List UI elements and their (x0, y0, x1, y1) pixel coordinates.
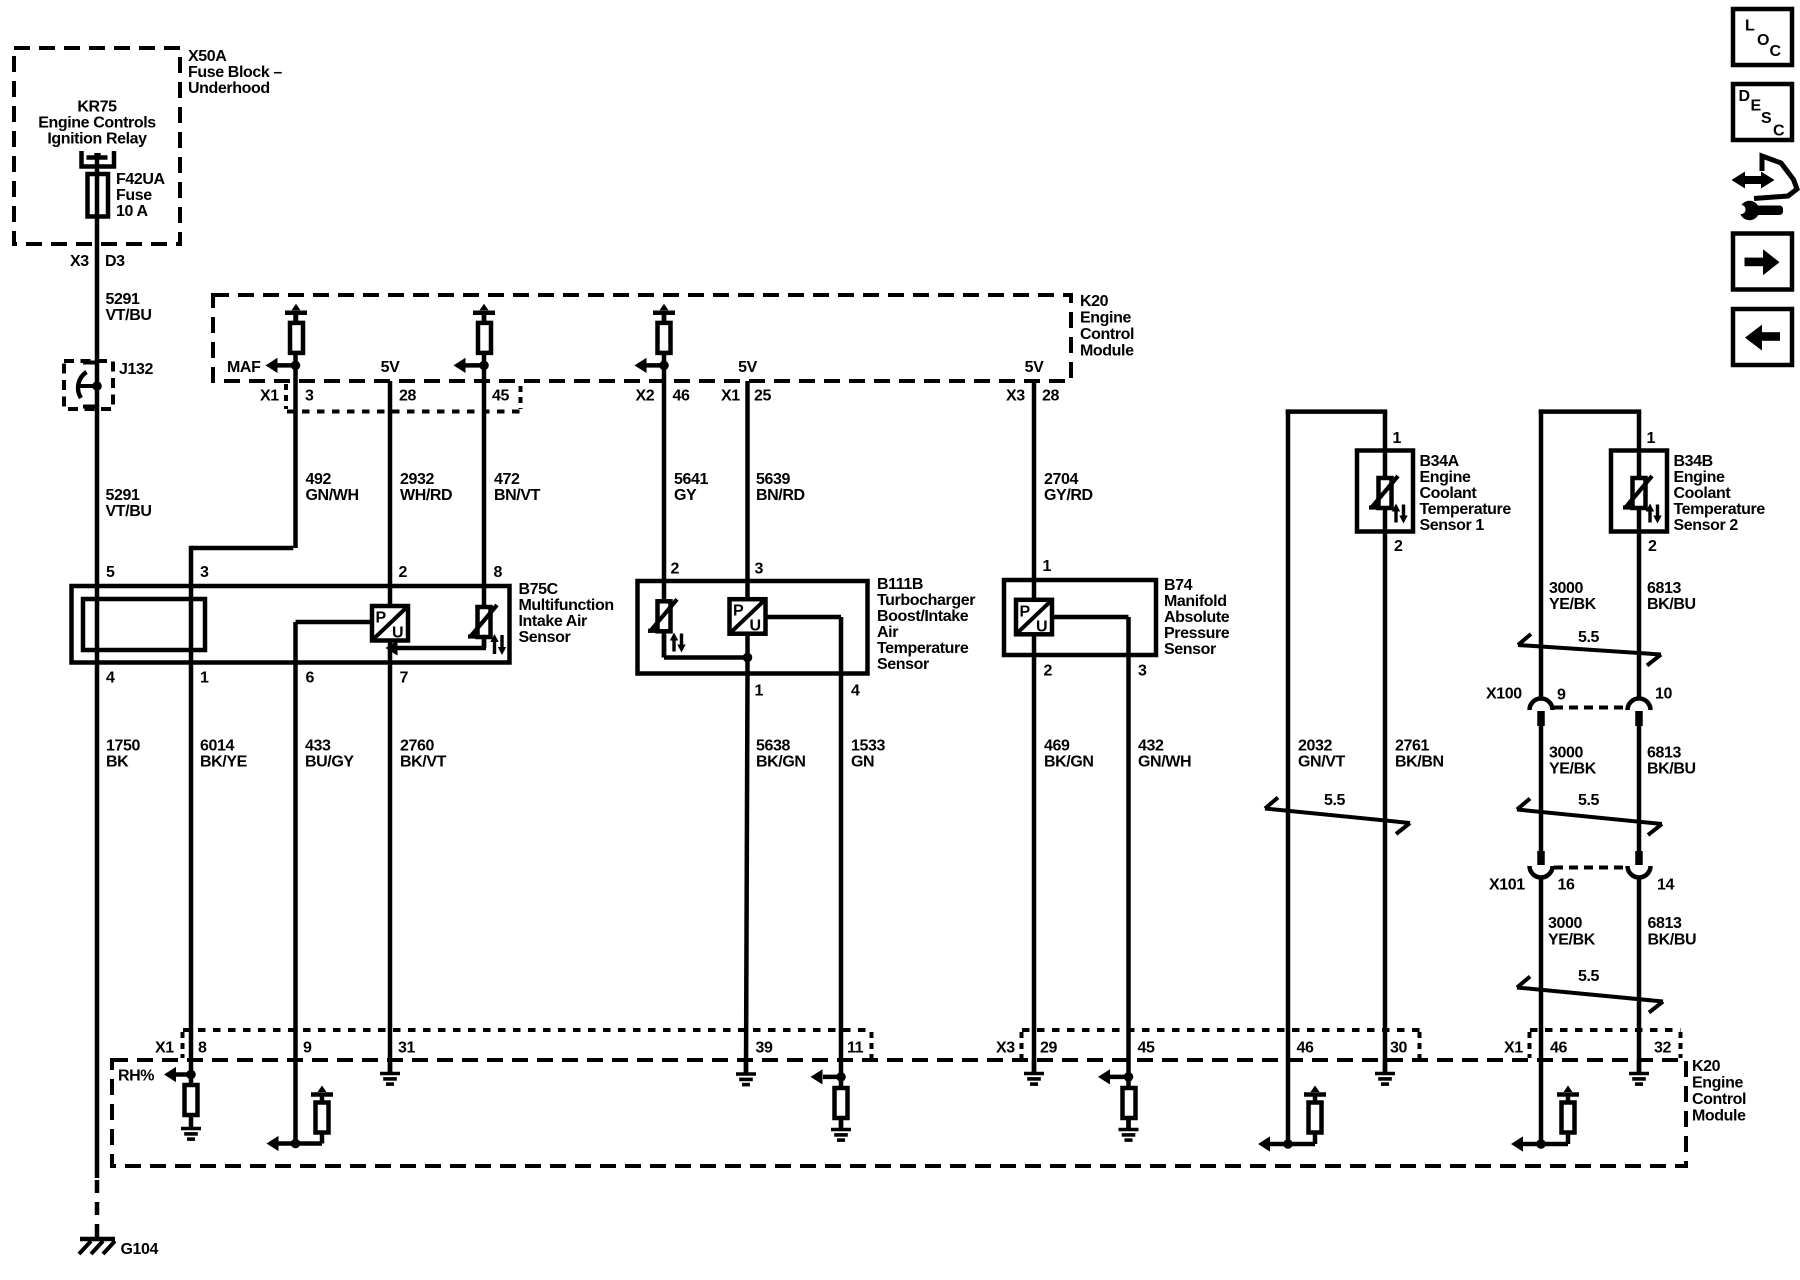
svg-text:3000: 3000 (1549, 580, 1583, 597)
svg-text:8: 8 (198, 1040, 207, 1057)
label MAF (227, 359, 261, 376)
pin label X1 top (260, 388, 279, 405)
twist 5.5 B34B middle (1517, 799, 1662, 836)
svg-text:1: 1 (200, 670, 209, 687)
svg-text:BN/RD: BN/RD (756, 487, 805, 504)
label 5.5 B34B lower (1578, 968, 1600, 985)
label 5.5 B34B middle (1578, 792, 1600, 809)
svg-text:U: U (1036, 618, 1047, 635)
label 6813 BK/BU row2 (1647, 745, 1696, 778)
svg-text:X1: X1 (721, 388, 740, 405)
wire loop above B34B (1539, 409, 1641, 450)
svg-text:10 A: 10 A (116, 203, 148, 220)
label J132 (119, 361, 153, 378)
pin 39 bottom (756, 1040, 773, 1057)
pin 46b bottom (1550, 1040, 1567, 1057)
svg-text:46: 46 (673, 388, 690, 405)
B111B thermistor leg (664, 635, 752, 663)
ground at pin 30 (1375, 1060, 1395, 1084)
ECM internal resistor at pin 46 X2 (653, 304, 675, 353)
svg-text:5.5: 5.5 (1578, 792, 1600, 809)
ground at pin 8 (181, 1129, 201, 1140)
pin 46 top (673, 388, 690, 405)
label X100 (1486, 686, 1522, 703)
svg-text:5638: 5638 (756, 738, 790, 755)
svg-text:B34B: B34B (1674, 453, 1713, 470)
svg-text:U: U (392, 625, 403, 642)
pin 10 X100 (1655, 686, 1672, 703)
svg-text:5639: 5639 (756, 471, 790, 488)
label 2760 BK/VT (400, 738, 447, 771)
svg-text:B75C: B75C (519, 581, 559, 598)
svg-text:X101: X101 (1489, 877, 1525, 894)
pin 28 top (399, 388, 416, 405)
svg-text:2: 2 (1044, 663, 1053, 680)
svg-text:2: 2 (1648, 538, 1657, 555)
svg-text:Control: Control (1692, 1091, 1746, 1108)
pin label X3 top (1006, 388, 1025, 405)
label 5V pin 28 X3 (1025, 359, 1044, 376)
B111B P/U symbol (730, 599, 766, 635)
svg-text:6: 6 (306, 670, 315, 687)
svg-text:469: 469 (1044, 738, 1070, 755)
MAF output arrow (266, 358, 301, 373)
svg-text:Temperature: Temperature (1674, 501, 1766, 518)
svg-text:X2: X2 (636, 388, 655, 405)
svg-text:P: P (733, 603, 744, 620)
svg-text:E: E (1751, 98, 1762, 115)
wire 6014 BK/YE (pin 1 to ECM pin 8) (189, 663, 194, 1086)
B74 P/U symbol (1016, 600, 1052, 636)
label B74 (1164, 577, 1230, 658)
svg-text:J132: J132 (119, 361, 153, 378)
svg-text:1: 1 (755, 683, 764, 700)
B75C internal arrow to P/U (386, 638, 487, 656)
svg-text:U: U (750, 618, 761, 635)
B111B thermistor (648, 599, 677, 631)
svg-text:2: 2 (399, 564, 408, 581)
svg-text:Multifunction: Multifunction (519, 597, 614, 614)
pin 4 B111B (851, 683, 860, 700)
svg-text:BK: BK (106, 754, 129, 771)
wire 5639 BN/RD (5V to B111B pin 3) (745, 381, 750, 674)
svg-text:BK/BU: BK/BU (1648, 932, 1697, 949)
svg-text:BU/GY: BU/GY (305, 754, 354, 771)
ECM resistor at pin 11 (835, 1088, 848, 1128)
svg-text:X3: X3 (1006, 388, 1025, 405)
svg-text:S: S (1761, 110, 1772, 127)
svg-text:GY: GY (674, 487, 697, 504)
svg-text:C: C (1770, 43, 1782, 60)
label 5V pin 25 (738, 359, 757, 376)
pin 9 X100 (1557, 687, 1566, 704)
svg-text:BK/BN: BK/BN (1395, 754, 1444, 771)
svg-text:45: 45 (492, 388, 509, 405)
svg-text:Manifold: Manifold (1164, 593, 1227, 610)
wire 3000 YE/BK middle (1539, 726, 1544, 852)
pin 1 B74 (1043, 558, 1052, 575)
wire D inside B75C/P-U (388, 606, 393, 663)
icon DESC box (1733, 84, 1792, 140)
svg-text:Engine: Engine (1692, 1075, 1743, 1092)
pin 2 B34A (1394, 538, 1403, 555)
svg-text:Sensor: Sensor (519, 629, 571, 646)
label wire 5291 upper (106, 291, 152, 324)
wire 5638 BK/GN (B111B pin 1 to ECM 39) (746, 674, 748, 1074)
label 492 GN/WH (306, 471, 359, 504)
svg-text:2761: 2761 (1395, 738, 1429, 755)
wire 472 BN/VT (to B75C pin 8) (482, 313, 487, 648)
svg-text:31: 31 (398, 1040, 415, 1057)
wire 2032 GN/VT (to ECM 46) (1286, 412, 1291, 1144)
wire 2932 WH/RD (5V) (388, 381, 393, 606)
svg-text:Air: Air (877, 624, 898, 641)
svg-text:BK/GN: BK/GN (756, 754, 806, 771)
svg-text:D: D (1739, 88, 1750, 105)
svg-text:11: 11 (847, 1040, 864, 1057)
svg-text:1533: 1533 (851, 738, 885, 755)
label 432 GN/WH (1138, 738, 1191, 771)
svg-text:2: 2 (671, 561, 680, 578)
label 2704 GY/RD (1044, 471, 1093, 504)
svg-text:2760: 2760 (400, 738, 434, 755)
svg-text:3: 3 (755, 561, 764, 578)
svg-text:30: 30 (1390, 1040, 1407, 1057)
svg-text:2704: 2704 (1044, 471, 1078, 488)
svg-text:P: P (1020, 603, 1031, 620)
B34A thermistor (1369, 476, 1398, 508)
label 6813 BK/BU row3 (1648, 915, 1697, 949)
wire 3000 YE/BK upper (to X100 pin 9) (1539, 412, 1544, 700)
label B75C (519, 581, 614, 646)
pin label X1b bottom (1504, 1040, 1523, 1057)
ground at pin 39 (736, 1060, 756, 1085)
arrow and resistor at pin 9 (267, 1086, 334, 1152)
svg-text:46: 46 (1297, 1040, 1314, 1057)
wire A inside B75C (95, 586, 100, 663)
pin label X2 top (636, 388, 655, 405)
svg-text:45: 45 (1138, 1040, 1155, 1057)
pin 32 bottom (1654, 1040, 1671, 1057)
ground at pin 32 (1629, 1060, 1649, 1084)
svg-text:Coolant: Coolant (1420, 485, 1478, 502)
connector X101 (1530, 851, 1651, 878)
junction J132 dashed box (64, 361, 113, 409)
B75C heater element (83, 599, 205, 650)
svg-text:X1: X1 (1504, 1040, 1523, 1057)
svg-text:WH/RD: WH/RD (400, 487, 452, 504)
svg-text:6014: 6014 (200, 738, 234, 755)
svg-text:6813: 6813 (1648, 915, 1682, 932)
arrow at pin 45 (1098, 1069, 1133, 1084)
svg-text:Control: Control (1080, 326, 1134, 343)
ground at pin 29 (1024, 1060, 1044, 1084)
svg-text:G104: G104 (121, 1241, 159, 1258)
svg-text:5641: 5641 (674, 471, 708, 488)
wire B34A through sensor (1383, 451, 1388, 532)
svg-text:10: 10 (1655, 686, 1672, 703)
svg-text:492: 492 (306, 471, 332, 488)
svg-text:X3: X3 (996, 1040, 1015, 1057)
svg-text:GN: GN (851, 754, 874, 771)
wire B74 internal to pin 3 (1052, 617, 1129, 655)
pin 8 B75C (494, 564, 503, 581)
label 2932 WH/RD (400, 471, 452, 504)
ground at pin 11 (831, 1130, 851, 1141)
svg-text:5.5: 5.5 (1578, 629, 1600, 646)
svg-text:5: 5 (106, 564, 115, 581)
svg-text:Sensor: Sensor (877, 656, 929, 673)
wire 2760 BK/VT (pin 7 to ECM 31) (388, 663, 393, 1074)
label X101 (1489, 877, 1525, 894)
B75C P/U symbol (372, 606, 408, 642)
svg-text:6813: 6813 (1647, 580, 1681, 597)
svg-text:5V: 5V (738, 359, 757, 376)
svg-text:4: 4 (106, 670, 115, 687)
svg-text:GN/VT: GN/VT (1298, 754, 1346, 771)
svg-text:472: 472 (494, 471, 520, 488)
wire 6813 BK/BU upper (to X100 pin 10) (1637, 532, 1642, 701)
svg-text:X50A: X50A (188, 48, 227, 65)
ECM K20 top dashed box (213, 295, 1071, 381)
label G104 (121, 1241, 159, 1258)
B75C internal wire pin6 to P/U (296, 620, 373, 625)
wire 5291 VT/BU (fuse to B75C pin 5) (95, 157, 100, 586)
svg-text:3: 3 (1138, 663, 1147, 680)
label 5641 GY (674, 471, 708, 504)
svg-text:RH%: RH% (118, 1068, 154, 1085)
label RH% (118, 1068, 154, 1085)
sensor B34A box (1357, 451, 1413, 532)
svg-text:Turbocharger: Turbocharger (877, 592, 975, 609)
svg-text:8: 8 (494, 564, 503, 581)
svg-text:5V: 5V (381, 359, 400, 376)
svg-text:432: 432 (1138, 738, 1164, 755)
svg-text:Ignition Relay: Ignition Relay (47, 131, 147, 148)
wire 492 GN/WH vertical (293, 313, 298, 548)
svg-text:Module: Module (1692, 1108, 1746, 1125)
svg-text:3000: 3000 (1548, 915, 1582, 932)
pin 2 B74 (1044, 663, 1053, 680)
svg-text:BK/BU: BK/BU (1647, 761, 1696, 778)
label 5638 BK/GN (756, 738, 806, 771)
ground at pin 45 (1119, 1130, 1139, 1141)
B34A up/down arrows (1392, 504, 1408, 524)
svg-text:F42UA: F42UA (116, 171, 166, 188)
B34B up/down arrows (1646, 504, 1662, 524)
icon LOC box (1733, 9, 1792, 65)
pin 3 top (305, 388, 314, 405)
label 6813 BK/BU row1 (1647, 580, 1696, 613)
pin 7 B75C (400, 670, 409, 687)
pin 8 bottom (198, 1040, 207, 1057)
svg-text:1: 1 (1393, 430, 1402, 447)
ECM internal resistor at pin 45 (473, 304, 495, 353)
pin 31 bottom (398, 1040, 415, 1057)
svg-text:D3: D3 (105, 253, 125, 270)
label KR75 relay (38, 99, 156, 148)
sensor B75C box (72, 586, 510, 663)
svg-text:Intake Air: Intake Air (519, 613, 587, 630)
svg-text:YE/BK: YE/BK (1549, 761, 1597, 778)
pin 2 B75C (399, 564, 408, 581)
svg-text:GN/WH: GN/WH (1138, 754, 1191, 771)
label 5.5 B34A (1324, 792, 1346, 809)
pin 46 bottom (1297, 1040, 1314, 1057)
svg-text:P: P (376, 610, 387, 627)
wire 1750 BK (B75C pin 4 to G104) (95, 663, 100, 1179)
ground G104 (79, 1239, 115, 1254)
pin 16 X101 (1558, 877, 1575, 894)
svg-text:Absolute: Absolute (1164, 609, 1230, 626)
svg-text:MAF: MAF (227, 359, 261, 376)
ECM internal resistor at MAF pin 3 (285, 304, 307, 353)
pin 2 B34B (1648, 538, 1657, 555)
svg-text:Temperature: Temperature (1420, 501, 1512, 518)
svg-text:BK/YE: BK/YE (200, 754, 248, 771)
svg-text:1: 1 (1043, 558, 1052, 575)
svg-text:Sensor: Sensor (1164, 641, 1216, 658)
twist 5.5 B34A (1265, 798, 1410, 835)
svg-text:Engine Controls: Engine Controls (38, 115, 156, 132)
top connector dotted band (286, 384, 527, 412)
svg-text:3000: 3000 (1549, 745, 1583, 762)
label 1533 GN (851, 738, 885, 771)
svg-text:14: 14 (1657, 877, 1674, 894)
svg-text:2032: 2032 (1298, 738, 1332, 755)
pin 9 bottom (303, 1040, 312, 1057)
pin 30 bottom (1390, 1040, 1407, 1057)
svg-text:5291: 5291 (106, 487, 140, 504)
label 5639 BN/RD (756, 471, 805, 504)
pin 14 X101 (1657, 877, 1674, 894)
ECM K20 bottom dashed box (112, 1060, 1686, 1166)
arrow and resistor at pin 46 (1258, 1086, 1326, 1152)
svg-text:5V: 5V (1025, 359, 1044, 376)
ground at pin 31 (380, 1060, 400, 1084)
svg-text:YE/BK: YE/BK (1549, 596, 1597, 613)
pin 29 bottom (1040, 1040, 1057, 1057)
B34B thermistor (1623, 476, 1652, 508)
sensor B34B box (1611, 451, 1667, 532)
svg-text:46: 46 (1550, 1040, 1567, 1057)
svg-text:6813: 6813 (1647, 745, 1681, 762)
svg-text:Underhood: Underhood (188, 80, 270, 97)
svg-text:KR75: KR75 (77, 99, 117, 116)
pin 1 B34A (1393, 430, 1402, 447)
svg-text:5.5: 5.5 (1324, 792, 1346, 809)
label 6014 BK/YE (200, 738, 248, 771)
wire loop above B34A (1286, 409, 1387, 450)
svg-text:5.5: 5.5 (1578, 968, 1600, 985)
svg-text:X1: X1 (260, 388, 279, 405)
svg-text:Engine: Engine (1420, 469, 1471, 486)
svg-text:32: 32 (1654, 1040, 1671, 1057)
wire 2704 GY/RD (5V to B74 pin 1) (1032, 381, 1037, 655)
svg-text:Engine: Engine (1674, 469, 1725, 486)
label 472 BN/VT (494, 471, 541, 504)
J132 splice symbol (78, 363, 102, 407)
pin label X3 bottom (996, 1040, 1015, 1057)
sensor B74 box (1004, 580, 1156, 655)
icon back arrow box (1733, 309, 1792, 365)
label 2761 BK/BN (1395, 738, 1444, 771)
svg-text:Temperature: Temperature (877, 640, 969, 657)
pin 45 bottom (1138, 1040, 1155, 1057)
label 3000 YE/BK row3 (1548, 915, 1596, 949)
pin 1 B111B (755, 683, 764, 700)
bottom connector dotted band 1 (183, 1030, 872, 1058)
wire 1750 BK dashed tail (95, 1180, 100, 1237)
wire 1533 GN (pin 4 to ECM 11) (839, 674, 844, 1130)
B111B up/down arrows (670, 633, 686, 653)
svg-text:39: 39 (756, 1040, 773, 1057)
pin 3 B111B (755, 561, 764, 578)
wire B inside B75C (189, 586, 194, 663)
arrow at pin 11 (811, 1069, 846, 1084)
pin 1 B75C (200, 670, 209, 687)
arrow at pin 45 (454, 358, 489, 373)
svg-text:2932: 2932 (400, 471, 434, 488)
fuse F42UA (88, 174, 109, 217)
svg-text:9: 9 (1557, 687, 1566, 704)
svg-text:16: 16 (1558, 877, 1575, 894)
pin 2 B111B (671, 561, 680, 578)
twist 5.5 B34B lower (1517, 977, 1663, 1013)
svg-text:5291: 5291 (106, 291, 140, 308)
label 5V pin 28 (381, 359, 400, 376)
bottom connector dotted band 3 (1530, 1030, 1681, 1058)
arrow and resistor at pin X1-46 (1511, 1086, 1579, 1152)
B75C thermistor (468, 605, 497, 637)
twist 5.5 B34B upper (1518, 634, 1661, 666)
label F42UA fuse (116, 171, 166, 220)
svg-text:X100: X100 (1486, 686, 1522, 703)
svg-text:Fuse Block –: Fuse Block – (188, 64, 282, 81)
pin 11 bottom (847, 1040, 864, 1057)
svg-text:3: 3 (305, 388, 314, 405)
svg-text:B111B: B111B (877, 576, 923, 593)
label 1750 BK (106, 738, 140, 771)
svg-text:L: L (1745, 18, 1755, 35)
svg-text:7: 7 (400, 670, 409, 687)
pin 1 B34B (1647, 430, 1656, 447)
wire 3000 YE/BK lower (to ECM X1-46) (1539, 878, 1544, 1144)
svg-text:BN/VT: BN/VT (494, 487, 541, 504)
sensor B111B box (638, 581, 868, 674)
svg-text:4: 4 (851, 683, 860, 700)
wire 5641 GY (to B111B pin 2) (662, 313, 667, 658)
svg-text:VT/BU: VT/BU (106, 307, 152, 324)
svg-text:Pressure: Pressure (1164, 625, 1230, 642)
bottom connector dotted band 2 (1022, 1030, 1420, 1058)
svg-text:Module: Module (1080, 343, 1134, 360)
pin 28b top (1042, 388, 1059, 405)
svg-text:B74: B74 (1164, 577, 1193, 594)
label X50A Fuse Block Underhood (188, 48, 282, 97)
svg-text:Sensor 2: Sensor 2 (1674, 517, 1739, 534)
svg-text:BK/BU: BK/BU (1647, 596, 1696, 613)
pin 3 B75C (200, 564, 209, 581)
label wire 5291 lower (106, 487, 152, 520)
pin 5 B75C (106, 564, 115, 581)
label B111B (877, 576, 975, 673)
icon vehicle with arrows and wrench (1732, 156, 1798, 220)
wire 469 BK/GN (B74 pin 2 to ECM 29) (1032, 655, 1037, 1074)
ECM resistor at pin 45 (1123, 1088, 1136, 1128)
fuse block X50A dashed box (14, 48, 180, 244)
pin label X3 D3 (70, 253, 125, 270)
